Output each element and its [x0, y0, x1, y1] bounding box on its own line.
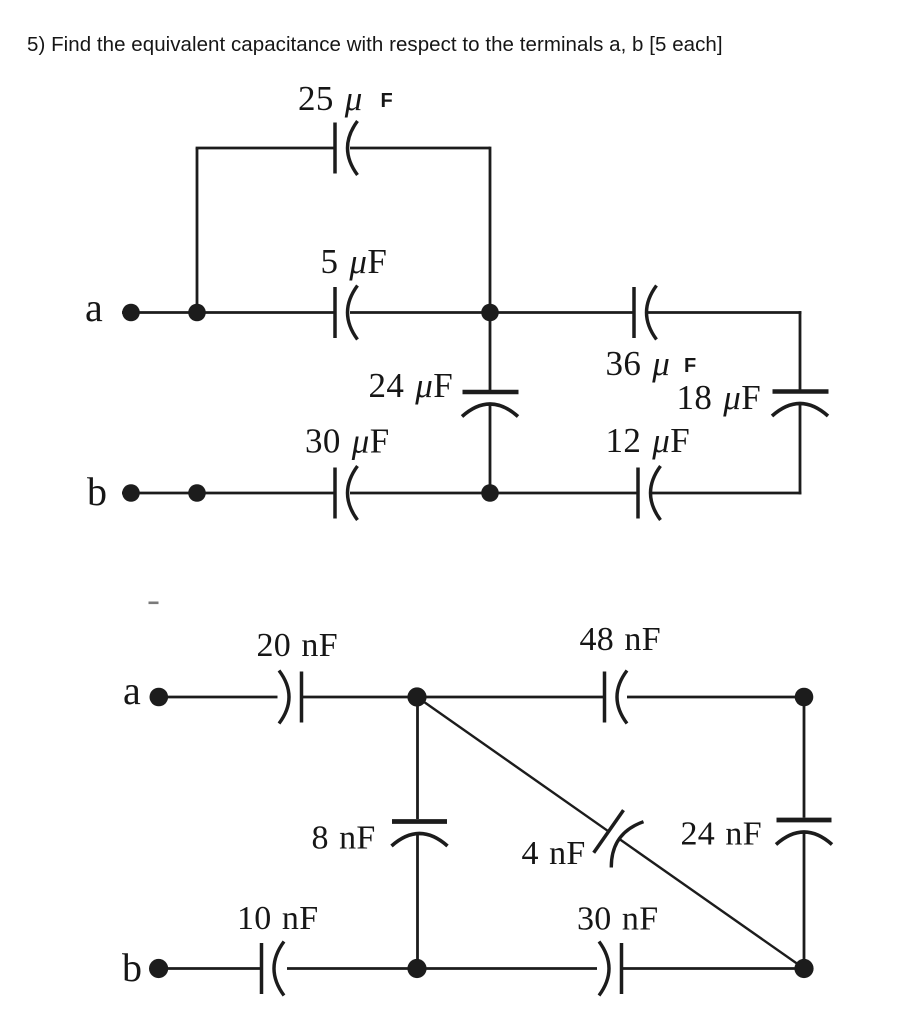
wire: left vertical below 8nF — [416, 834, 419, 969]
capacitor C10 10nF — [260, 943, 264, 994]
wire: diagonal lower segment from 4nF arc — [619, 839, 804, 969]
capacitor C8 8nF — [392, 819, 447, 824]
wire: node to 36uF plate — [350, 311, 633, 314]
capacitor C36 36uF — [632, 287, 636, 338]
svg-text:5 μF: 5 μF — [321, 242, 388, 281]
svg-text:a: a — [85, 285, 103, 330]
wire: terminal a to 5uF plate — [122, 311, 334, 314]
wire: 12uF arc to bottom-right corner — [652, 492, 801, 495]
node: middle junction on a-line — [481, 304, 499, 322]
svg-text:18 μF: 18 μF — [677, 378, 762, 417]
capacitor C24 24uF — [463, 390, 519, 395]
node: junction dot on b-line — [188, 484, 206, 502]
wire: top loop right horizontal — [350, 147, 490, 150]
node: terminal a dot (bottom circuit) — [150, 688, 169, 707]
svg-text:24 nF: 24 nF — [681, 816, 762, 853]
wire: diagonal upper segment to 4nF plate — [417, 697, 608, 831]
svg-text:24 μF: 24 μF — [369, 366, 454, 405]
wire: right vertical above 24nF — [803, 697, 806, 818]
wire: 30uF arc to bottom node — [350, 492, 637, 495]
capacitor C12 12uF — [636, 468, 640, 519]
wire: left vertical of top loop — [196, 148, 199, 313]
node: middle junction on b-line — [481, 484, 499, 502]
node: terminal a dot — [122, 304, 140, 322]
svg-text:b: b — [122, 945, 142, 990]
svg-text:30 μF: 30 μF — [305, 422, 390, 461]
capacitor C48 48nF — [603, 672, 607, 723]
wire: terminal b to 10nF plate — [167, 967, 260, 970]
svg-text:8 nF: 8 nF — [312, 820, 376, 857]
svg-text:F: F — [684, 355, 696, 377]
wire: left vertical above 8nF — [416, 697, 419, 819]
node: bottom junction dot — [407, 959, 426, 978]
svg-text:30 nF: 30 nF — [577, 901, 658, 938]
node: terminal b dot — [122, 484, 140, 502]
svg-text:a: a — [123, 668, 141, 713]
wire: terminal b to 30uF plate — [122, 492, 334, 495]
node: bottom-right corner dot — [794, 959, 813, 978]
wire: 10nF arc to bottom junction — [287, 967, 597, 970]
node: junction dot on a-line — [188, 304, 206, 322]
svg-text:b: b — [87, 469, 107, 514]
svg-text:F: F — [381, 90, 393, 112]
wire: 20nF plate to 48nF plate — [302, 696, 604, 699]
capacitor C18 18uF — [773, 389, 829, 394]
stray mark: small gray dash — [149, 602, 159, 605]
capacitor C30n 30nF — [599, 942, 609, 996]
capacitor C24n 24nF — [777, 818, 832, 823]
capacitor C25 25uF — [333, 123, 337, 174]
svg-text:10 nF: 10 nF — [237, 900, 318, 937]
wire: top loop right vertical down to node — [489, 147, 492, 313]
capacitor C20 20nF — [279, 671, 289, 724]
wire: terminal a to 20nF arc — [167, 696, 278, 699]
svg-text:5) Find the equivalent capacit: 5) Find the equivalent capacitance with … — [27, 33, 723, 56]
svg-text:48 nF: 48 nF — [580, 621, 661, 658]
node: terminal b dot (bottom circuit) — [149, 959, 168, 978]
svg-text:36 μ: 36 μ — [606, 344, 671, 383]
wire: right vertical below 24nF — [803, 833, 806, 969]
svg-text:20 nF: 20 nF — [257, 627, 338, 664]
svg-text:4 nF: 4 nF — [522, 835, 586, 872]
wire: 36uF arc to top-right corner — [648, 311, 801, 314]
wire: 48nF arc to top-right node — [627, 696, 804, 699]
wire: right vertical below 18uF — [799, 405, 802, 495]
node: top-right corner dot — [795, 688, 814, 707]
capacitor C30 30uF — [333, 468, 337, 519]
svg-text:12 μF: 12 μF — [606, 421, 691, 460]
capacitor C5 5uF — [333, 287, 337, 338]
svg-text:25 μ: 25 μ — [298, 79, 363, 118]
capacitor C4 4nF (diagonal) — [594, 810, 624, 853]
wire: right vertical above 18uF — [799, 311, 802, 390]
wire: 30nF plate to bottom-right node — [622, 967, 805, 970]
wire: middle vertical below 24uF — [489, 405, 492, 494]
node: top junction dot — [407, 687, 426, 706]
wire: top loop left horizontal — [196, 147, 334, 150]
wire: middle vertical above 24uF — [489, 313, 492, 391]
